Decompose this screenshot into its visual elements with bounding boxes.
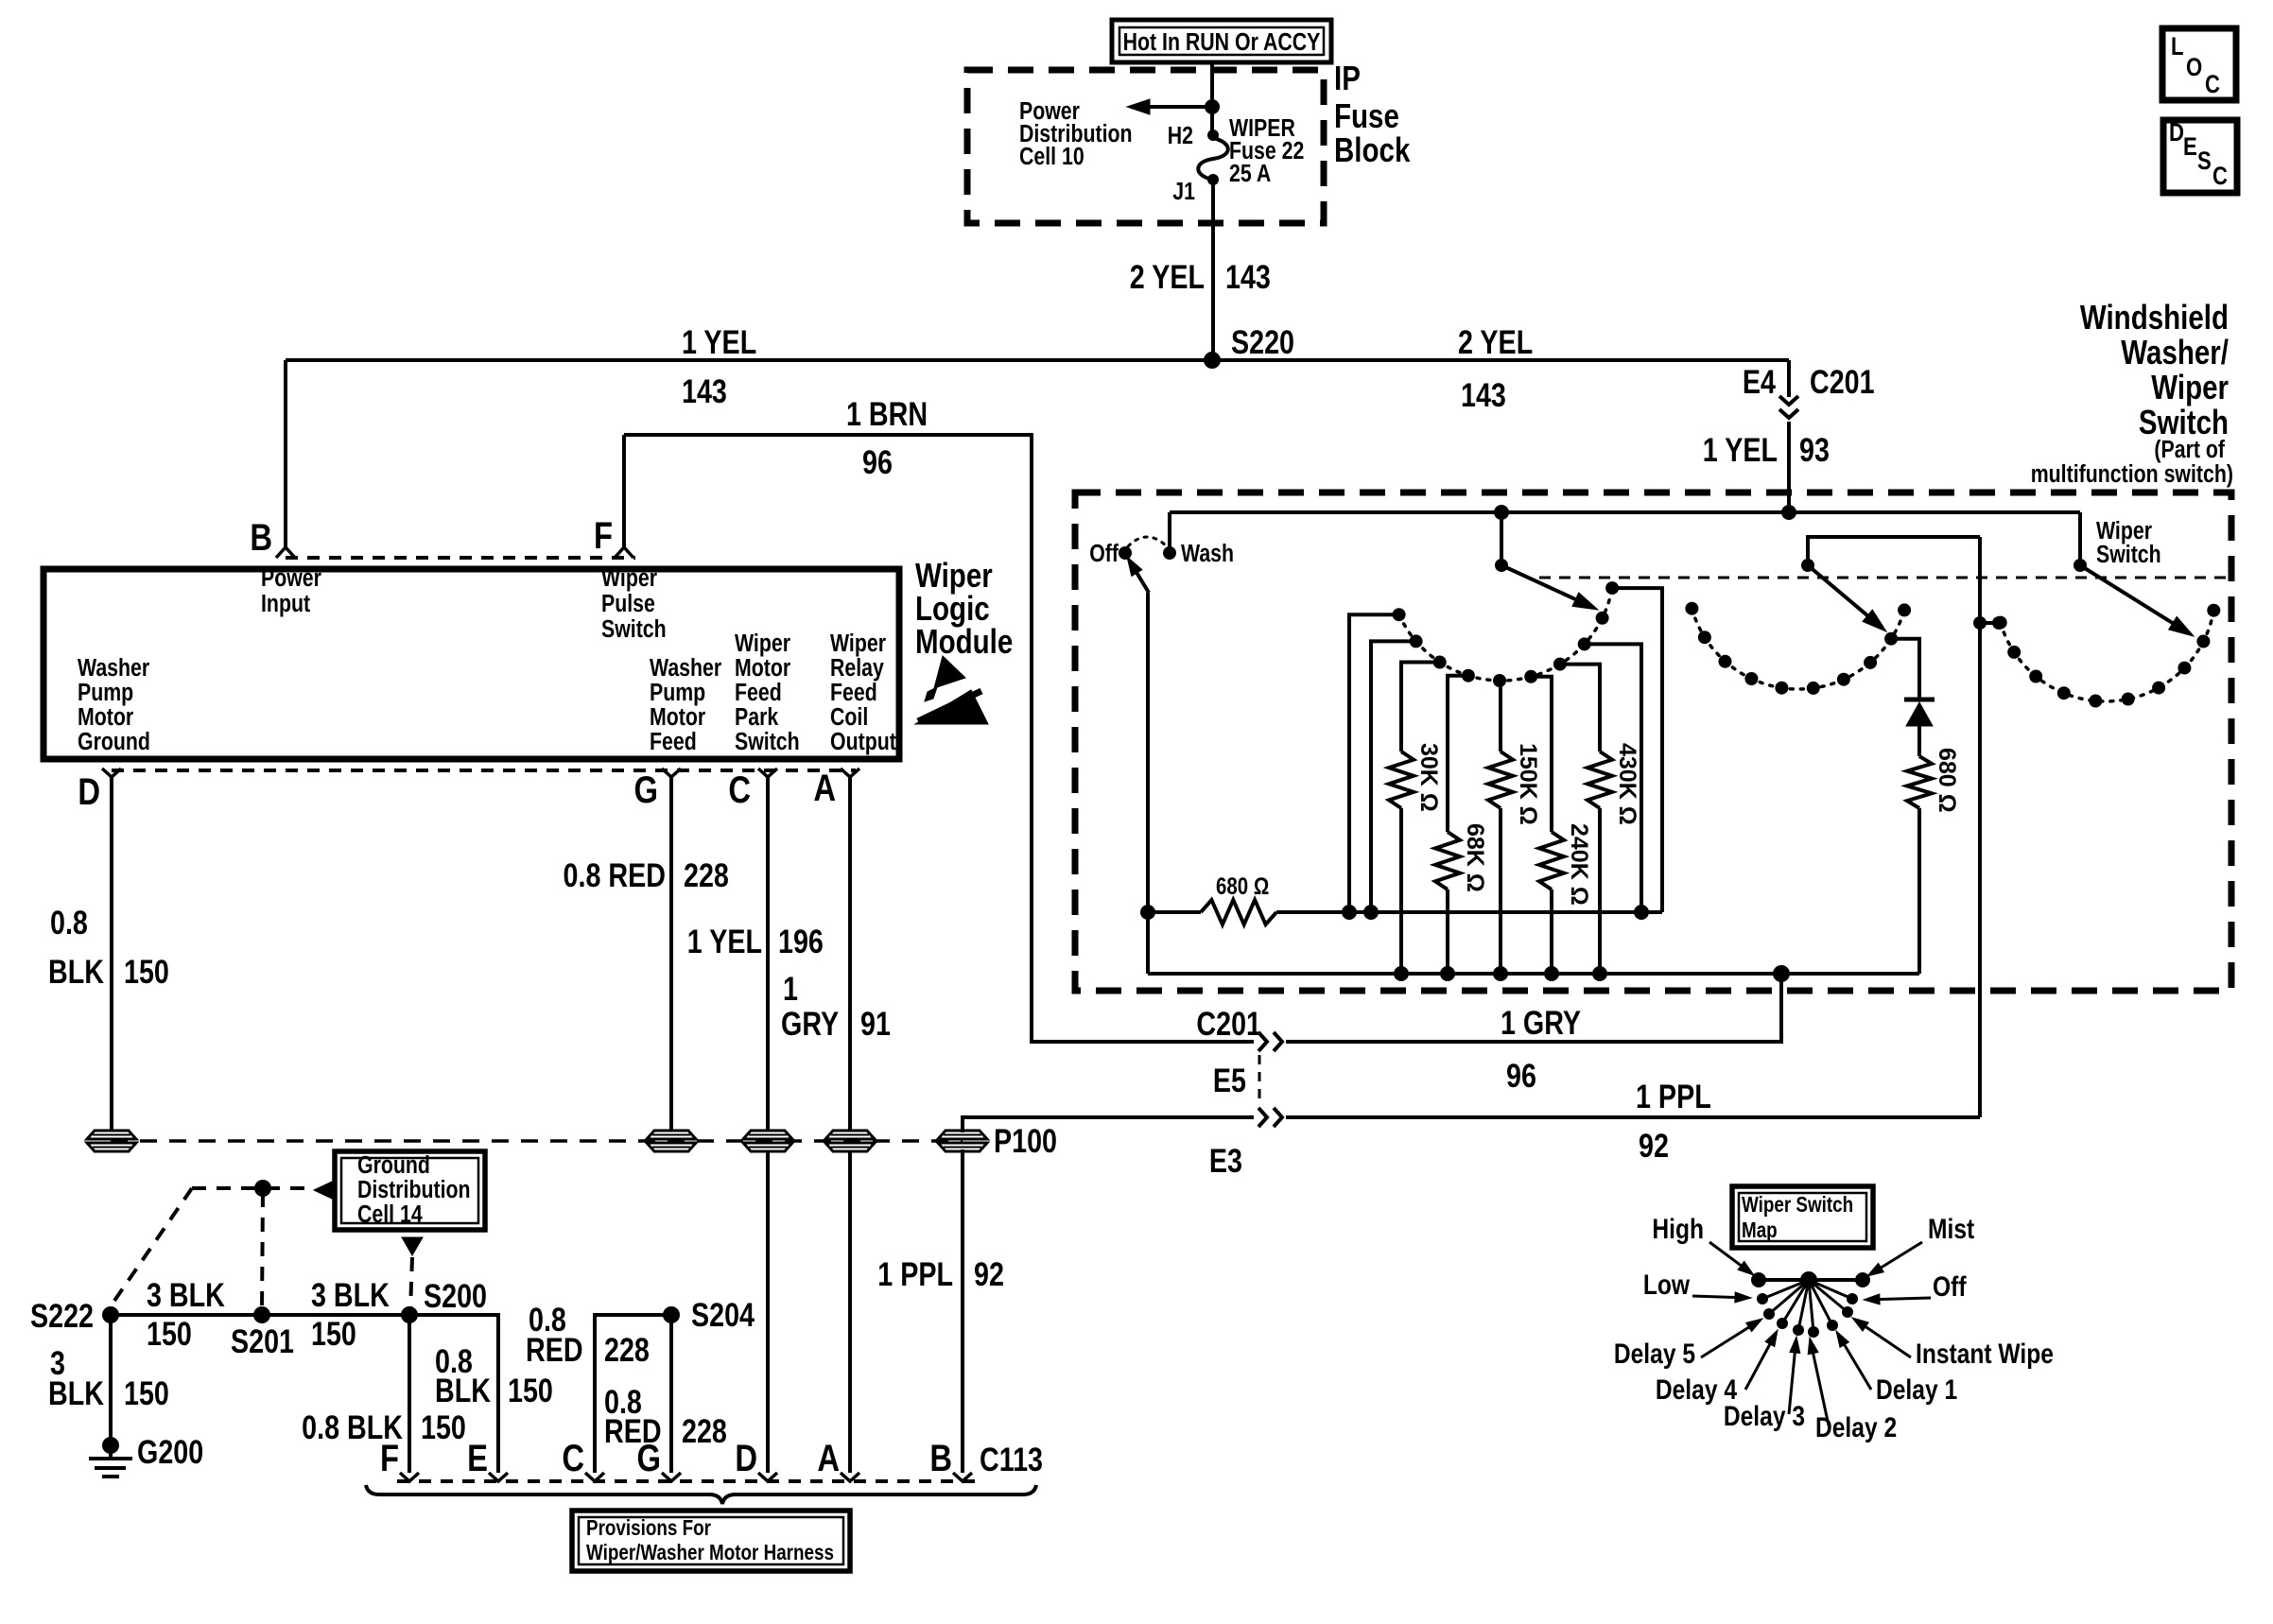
- svg-text:Instant Wipe: Instant Wipe: [1916, 1338, 2054, 1370]
- svg-text:0.8: 0.8: [50, 904, 88, 941]
- label Wiper Logic Module: [915, 556, 1013, 660]
- map label Instant Wipe: [1852, 1318, 2054, 1370]
- label Wiper Pulse Switch: [601, 564, 667, 644]
- svg-text:C113: C113: [980, 1441, 1043, 1477]
- off-wash dashed arc: [1128, 537, 1167, 546]
- svg-text:Fuse: Fuse: [1334, 96, 1399, 134]
- map label Mist: [1867, 1213, 1974, 1276]
- wire 1 GRY exit: [1286, 974, 1781, 1042]
- diode: [1904, 700, 1935, 726]
- svg-text:680 Ω: 680 Ω: [1216, 872, 1269, 899]
- ESD symbol: [915, 656, 988, 724]
- svg-text:O: O: [2186, 54, 2202, 82]
- IP fuse block dashed box: [967, 70, 1324, 223]
- wire 1 YEL 93: [1787, 422, 1791, 512]
- svg-text:D: D: [735, 1437, 757, 1479]
- label 0.8 BLK 150 pin F: [302, 1408, 466, 1445]
- svg-text:150: 150: [124, 1374, 169, 1411]
- wire fuse output 2 YEL 143: [1211, 180, 1215, 360]
- svg-text:E: E: [467, 1437, 488, 1479]
- C113 pin G: [636, 1437, 681, 1481]
- svg-text:1: 1: [783, 970, 798, 1007]
- pin B: [250, 516, 295, 559]
- svg-text:multifunction switch): multifunction switch): [2031, 460, 2233, 489]
- svg-text:BLK: BLK: [48, 953, 104, 990]
- C113 pin C: [562, 1437, 604, 1481]
- wire contact2 to 680 bus: [1371, 641, 1416, 912]
- provisions callout box: [572, 1511, 850, 1571]
- resistor 680 right: [1907, 756, 1932, 974]
- wire diode to 680: [1917, 726, 1921, 756]
- svg-text:1 YEL: 1 YEL: [687, 923, 762, 959]
- svg-text:Switch: Switch: [735, 728, 800, 756]
- svg-text:Block: Block: [1334, 130, 1411, 168]
- delay contact dot 3: [1433, 656, 1447, 669]
- node 1YEL entry: [1781, 505, 1796, 520]
- svg-text:92: 92: [1639, 1127, 1669, 1164]
- svg-text:G: G: [633, 769, 658, 811]
- label 0.8 RED 228: [564, 856, 729, 893]
- svg-text:C: C: [2212, 163, 2228, 191]
- map position dots: [1757, 1280, 1858, 1338]
- resistor 430K: [1588, 752, 1612, 974]
- label 0.8 RED 228 pin G: [604, 1383, 727, 1449]
- delay contact dot 6: [1524, 670, 1537, 683]
- C113 pin A: [817, 1437, 859, 1481]
- svg-text:3 BLK: 3 BLK: [147, 1276, 225, 1313]
- svg-text:1 BRN: 1 BRN: [846, 395, 928, 432]
- connector C201 E4: [1743, 363, 1875, 418]
- delay contact dot 8: [1578, 637, 1591, 650]
- label 680 ohm left: [1216, 872, 1269, 899]
- svg-text:L: L: [2171, 33, 2184, 61]
- svg-text:Wiper: Wiper: [601, 564, 657, 593]
- map label Delay 2: [1808, 1338, 1897, 1443]
- svg-text:BLK: BLK: [48, 1374, 104, 1411]
- wire S200 to pin E: [409, 1315, 498, 1473]
- svg-text:Mist: Mist: [1928, 1213, 1974, 1245]
- grommet P100: [938, 1122, 1057, 1159]
- svg-text:91: 91: [860, 1005, 891, 1042]
- svg-text:S220: S220: [1231, 323, 1294, 360]
- wire hot feed into fuse block: [1210, 62, 1214, 135]
- resistor 680 left: [1201, 900, 1276, 924]
- svg-text:Wash: Wash: [1181, 540, 1234, 568]
- map label Delay 3: [1724, 1337, 1805, 1432]
- wire 1 PPL vertical: [1978, 537, 1982, 1117]
- svg-text:J1: J1: [1172, 178, 1195, 206]
- contact Wash: [1163, 540, 1234, 568]
- svg-text:430K Ω: 430K Ω: [1614, 743, 1640, 825]
- switch top bus wire: [1170, 510, 2080, 514]
- svg-text:1 YEL: 1 YEL: [682, 323, 756, 360]
- contact Off: [1089, 540, 1132, 568]
- label IP Fuse Block: [1334, 59, 1411, 168]
- svg-text:A: A: [813, 767, 836, 809]
- mode contact dot 10: [2207, 604, 2220, 617]
- mode contact dot 7: [2152, 682, 2165, 695]
- map label Delay 5: [1614, 1319, 1762, 1370]
- mode contact dot 3: [2029, 670, 2042, 683]
- wire off blade drop: [1146, 593, 1150, 974]
- wire A to pin A: [848, 1150, 852, 1473]
- svg-text:150K Ω: 150K Ω: [1515, 743, 1541, 825]
- svg-text:92: 92: [974, 1255, 1004, 1292]
- svg-text:S204: S204: [691, 1296, 755, 1333]
- wire G 0.8 RED 228: [669, 777, 673, 1131]
- svg-text:1 PPL: 1 PPL: [877, 1255, 953, 1292]
- C113 dashed line: [397, 1479, 979, 1483]
- svg-text:196: 196: [778, 923, 824, 959]
- LOC box: [2162, 28, 2236, 100]
- label 30K ohm: [1415, 743, 1442, 812]
- wire main power bus: [286, 358, 1789, 362]
- svg-text:D: D: [2169, 119, 2184, 147]
- grommet C: [743, 1131, 792, 1151]
- wire 680 bus right: [1276, 910, 1662, 914]
- svg-text:S222: S222: [30, 1297, 94, 1334]
- wire contact5 to 150K: [1500, 681, 1501, 752]
- svg-text:BLK: BLK: [435, 1372, 491, 1408]
- module bottom pin dashed line: [112, 769, 856, 772]
- wire F drop: [622, 435, 626, 548]
- node feed junction: [1205, 99, 1220, 114]
- svg-text:Windshield: Windshield: [2080, 298, 2229, 336]
- label 2 YEL 143: [1130, 258, 1271, 295]
- mist contact dot 7: [1837, 673, 1850, 686]
- label 680 ohm right: [1934, 748, 1960, 813]
- svg-text:S201: S201: [231, 1322, 294, 1359]
- splice S204: [663, 1296, 755, 1333]
- label 0.8 BLK 150 pin E: [435, 1342, 553, 1408]
- svg-text:96: 96: [862, 443, 893, 480]
- svg-text:C: C: [562, 1437, 584, 1479]
- wire C to pin D: [766, 1150, 770, 1473]
- wire 1 PPL horizontal: [1286, 1115, 1980, 1119]
- svg-text:GRY: GRY: [781, 1005, 839, 1042]
- mode contact dot 2: [2007, 646, 2021, 659]
- svg-text:30K Ω: 30K Ω: [1415, 743, 1442, 812]
- delay contact dot 9: [1596, 612, 1609, 625]
- svg-text:96: 96: [1506, 1057, 1536, 1094]
- label Wiper Motor Feed Park Switch: [735, 630, 800, 756]
- svg-text:Wiper Switch: Wiper Switch: [1742, 1193, 1853, 1217]
- svg-text:228: 228: [682, 1412, 727, 1449]
- wire S204 to pin C: [595, 1315, 671, 1473]
- label 0.8 RED 228 pin C: [526, 1301, 650, 1368]
- map label Low: [1643, 1269, 1751, 1303]
- label 1 YEL 196: [687, 923, 824, 959]
- svg-text:1 YEL: 1 YEL: [1703, 431, 1778, 468]
- dashed link node: [192, 1180, 304, 1197]
- svg-text:C201: C201: [1196, 1005, 1261, 1042]
- mist contact dot 5: [1775, 682, 1788, 695]
- mist contact dot 4: [1744, 672, 1758, 685]
- svg-text:Provisions For: Provisions For: [586, 1516, 711, 1540]
- svg-text:C201: C201: [1810, 363, 1875, 400]
- svg-text:150: 150: [508, 1372, 553, 1408]
- svg-text:1 PPL: 1 PPL: [1636, 1078, 1711, 1114]
- label 430K ohm: [1614, 743, 1640, 825]
- label 0.8 BLK 150: [48, 904, 169, 990]
- label 1 GRY 91: [781, 970, 891, 1042]
- power source box "Hot In RUN Or ACCY": [1112, 20, 1331, 62]
- wire contact8 to 680 bus: [1585, 644, 1641, 912]
- label 2 YEL 143 right: [1458, 323, 1533, 413]
- label 3 BLK 150 ground leg: [48, 1344, 169, 1411]
- svg-text:150: 150: [124, 953, 169, 990]
- svg-text:0.8 RED: 0.8 RED: [564, 856, 666, 893]
- wire contact7 to 430K: [1560, 665, 1600, 752]
- wire P100 to pin B: [961, 1149, 964, 1473]
- harness brace: [366, 1485, 1036, 1504]
- label 1 PPL 92 pin B: [877, 1255, 1004, 1292]
- mist contact dot 1: [1685, 602, 1698, 615]
- svg-text:E4: E4: [1743, 363, 1776, 400]
- node resistor bottoms: [1394, 966, 1607, 981]
- fuse F22 element: [1198, 138, 1228, 180]
- right wiper arm: [2073, 512, 2194, 636]
- wire 680 bus left: [1148, 910, 1201, 914]
- resistor 240K: [1539, 832, 1564, 974]
- wash switch blade: [1127, 557, 1149, 593]
- label Washer Pump Motor Feed: [650, 654, 721, 756]
- wire contact3 to 30K: [1401, 663, 1440, 752]
- svg-text:Delay 3: Delay 3: [1724, 1400, 1805, 1432]
- svg-text:68K Ω: 68K Ω: [1462, 823, 1488, 892]
- svg-text:25 A: 25 A: [1229, 160, 1271, 188]
- delay contact dot 4: [1462, 669, 1475, 682]
- svg-text:C: C: [2205, 71, 2220, 99]
- wire 1 BRN from F: [624, 435, 1254, 1042]
- svg-text:Module: Module: [915, 622, 1013, 660]
- splice S201: [231, 1306, 294, 1360]
- svg-text:C: C: [728, 769, 751, 811]
- delay contact dot 10: [1605, 581, 1619, 595]
- svg-text:E: E: [2183, 133, 2197, 162]
- mist contact dot 2: [1698, 631, 1711, 644]
- svg-text:S: S: [2197, 147, 2212, 176]
- node blade-680 junction: [1140, 905, 1155, 920]
- pin A: [813, 767, 859, 809]
- svg-text:Hot In RUN Or ACCY: Hot In RUN Or ACCY: [1123, 28, 1321, 57]
- node 680 bus taps: [1342, 905, 1649, 920]
- module top pin dashed line: [286, 556, 635, 560]
- label 1 YEL 93: [1703, 431, 1830, 468]
- svg-text:S200: S200: [424, 1277, 487, 1314]
- arrow to power distribution: [1127, 99, 1212, 114]
- dashed E5-E3 link: [1258, 1055, 1261, 1104]
- svg-text:2 YEL: 2 YEL: [1130, 258, 1205, 295]
- svg-text:G200: G200: [137, 1433, 203, 1470]
- bulkhead dashed line: [111, 1139, 963, 1143]
- mist contact dot 10: [1898, 603, 1911, 616]
- delay contact dot 7: [1553, 658, 1567, 671]
- pin F: [594, 514, 633, 558]
- svg-text:150: 150: [311, 1315, 356, 1352]
- svg-text:Feed: Feed: [650, 728, 697, 756]
- splice S200: [401, 1277, 487, 1323]
- wire S200 to pin F: [408, 1315, 411, 1473]
- svg-text:Cell 10: Cell 10: [1019, 143, 1084, 171]
- wiper logic module box: [43, 569, 899, 759]
- svg-text:Pulse: Pulse: [601, 590, 655, 618]
- arrowhead to ground box: [314, 1182, 337, 1199]
- pin C: [728, 769, 777, 811]
- fuse F22 terminal J1: [1172, 174, 1219, 206]
- mode contact dot 8: [2178, 662, 2191, 675]
- svg-text:G: G: [636, 1437, 661, 1479]
- svg-text:240K Ω: 240K Ω: [1566, 823, 1592, 906]
- label 3 BLK 150 seg2: [311, 1276, 390, 1352]
- svg-text:150: 150: [147, 1315, 192, 1352]
- svg-text:Input: Input: [261, 590, 310, 618]
- mist contact dot 6: [1807, 682, 1820, 695]
- mode contact dot 9: [2196, 635, 2210, 648]
- left wiper arm: [1495, 512, 1598, 610]
- svg-text:B: B: [250, 516, 272, 559]
- resistor 30K: [1389, 752, 1414, 974]
- map pivot: [1800, 1271, 1817, 1288]
- svg-text:E3: E3: [1209, 1142, 1242, 1179]
- linkage dashed line: [1539, 577, 2228, 579]
- connector E3: [1209, 1108, 1282, 1180]
- mist contact dot 3: [1719, 655, 1732, 668]
- svg-text:F: F: [380, 1437, 399, 1479]
- label Wiper Switch inner: [2096, 517, 2161, 569]
- map label Delay 4: [1656, 1330, 1778, 1406]
- grommet G: [647, 1131, 696, 1151]
- svg-text:B: B: [929, 1437, 952, 1479]
- C113 pin F: [380, 1437, 419, 1481]
- svg-text:A: A: [817, 1437, 840, 1479]
- svg-text:680 Ω: 680 Ω: [1934, 748, 1960, 813]
- dashed link to S222: [114, 1188, 192, 1301]
- label C113: [980, 1441, 1043, 1477]
- svg-text:3 BLK: 3 BLK: [311, 1276, 390, 1313]
- svg-text:Off: Off: [1933, 1270, 1967, 1303]
- svg-text:Low: Low: [1643, 1269, 1691, 1301]
- svg-text:H2: H2: [1168, 122, 1193, 150]
- label 1 YEL 143: [682, 323, 756, 409]
- svg-text:93: 93: [1799, 431, 1830, 468]
- svg-text:150: 150: [421, 1408, 466, 1445]
- fuse F22 terminal H2: [1168, 122, 1219, 150]
- svg-text:RED: RED: [526, 1331, 583, 1368]
- splice S222: [30, 1297, 119, 1334]
- ground G200: [89, 1433, 203, 1477]
- map label Off: [1864, 1270, 1967, 1304]
- svg-text:Delay 5: Delay 5: [1614, 1338, 1695, 1370]
- C113 pin D: [735, 1437, 777, 1481]
- wire S222 to G200: [109, 1315, 113, 1445]
- svg-text:143: 143: [1225, 258, 1271, 295]
- svg-text:228: 228: [684, 856, 729, 893]
- resistor 68K: [1435, 832, 1460, 974]
- mode contact dot 6: [2122, 693, 2135, 706]
- label Wiper Relay Feed Coil Output: [830, 630, 896, 756]
- label 1 BRN 96: [846, 395, 928, 480]
- windshield wiper switch dashed box: [1075, 492, 2231, 991]
- node left arm tap: [1494, 505, 1509, 520]
- label 150K ohm: [1515, 743, 1541, 825]
- map label Delay 1: [1836, 1331, 1957, 1406]
- delay contact arc: [1399, 588, 1613, 681]
- wire G to pin G: [669, 1315, 673, 1473]
- label 240K ohm: [1566, 823, 1592, 906]
- wire contact1 to 680 bus: [1349, 614, 1399, 912]
- mode contact dot 1: [1994, 616, 2007, 630]
- C113 pin B: [929, 1437, 972, 1481]
- svg-text:143: 143: [1461, 376, 1506, 413]
- wiper switch map box: [1732, 1186, 1873, 1248]
- pin G: [633, 769, 681, 811]
- svg-text:Ground: Ground: [78, 728, 150, 756]
- delay contact dot 1: [1393, 608, 1406, 621]
- wire C 1 YEL 196: [766, 777, 770, 1131]
- dashed link to S200: [410, 1257, 412, 1310]
- svg-text:1 GRY: 1 GRY: [1501, 1004, 1581, 1041]
- svg-text:D: D: [78, 770, 100, 813]
- label 3 BLK 150 seg1: [147, 1276, 225, 1352]
- svg-text:Delay 1: Delay 1: [1876, 1373, 1957, 1406]
- resistor 150K: [1488, 752, 1513, 974]
- wire contact6 to 240K: [1531, 677, 1552, 832]
- node GRY tap: [1773, 965, 1790, 982]
- label part of multifunction switch: [2031, 436, 2233, 489]
- grommet D: [87, 1131, 136, 1151]
- wire A 1 GRY 91: [848, 777, 852, 1131]
- mist contact arc: [1692, 609, 1904, 689]
- switch bottom bus: [1148, 972, 1919, 976]
- wire E4 drop: [1787, 360, 1791, 397]
- label Washer Pump Motor Ground: [78, 654, 150, 756]
- mist contact dot 9: [1884, 632, 1898, 646]
- arrowhead below ground box: [402, 1237, 423, 1255]
- svg-text:Cell 14: Cell 14: [357, 1201, 423, 1229]
- delay contact dot 2: [1410, 634, 1423, 648]
- wire S222 to S200 bus: [111, 1313, 409, 1317]
- delay contact dot 5: [1493, 674, 1506, 687]
- label Windshield Washer/Wiper Switch: [2080, 298, 2229, 441]
- svg-text:Washer/: Washer/: [2121, 333, 2229, 371]
- svg-text:IP: IP: [1334, 59, 1361, 96]
- DESC box: [2163, 119, 2237, 193]
- map bar: [1751, 1272, 1870, 1287]
- wire B drop: [284, 360, 287, 548]
- wire middle arm feed: [1808, 537, 1980, 565]
- mode contact dot 4: [2057, 686, 2071, 700]
- svg-text:228: 228: [604, 1331, 650, 1368]
- svg-text:Power: Power: [261, 564, 321, 593]
- wire wash drop: [1168, 512, 1171, 553]
- node PPL contact: [1973, 616, 2005, 630]
- label Power Input: [261, 564, 321, 618]
- svg-text:Map: Map: [1742, 1218, 1778, 1242]
- svg-text:Wiper: Wiper: [2151, 368, 2229, 406]
- svg-text:2 YEL: 2 YEL: [1458, 323, 1533, 360]
- svg-text:High: High: [1652, 1213, 1704, 1245]
- svg-text:P100: P100: [994, 1122, 1057, 1159]
- splice S220: [1204, 323, 1294, 369]
- label 1 PPL 92: [1636, 1078, 1711, 1164]
- wiper mode contact arc: [2001, 611, 2214, 701]
- map label High: [1652, 1213, 1754, 1275]
- label 68K ohm: [1462, 823, 1488, 892]
- pin D: [78, 769, 121, 813]
- label 1 GRY 96: [1501, 1004, 1581, 1094]
- svg-text:Wiper/Washer Motor Harness: Wiper/Washer Motor Harness: [586, 1541, 834, 1564]
